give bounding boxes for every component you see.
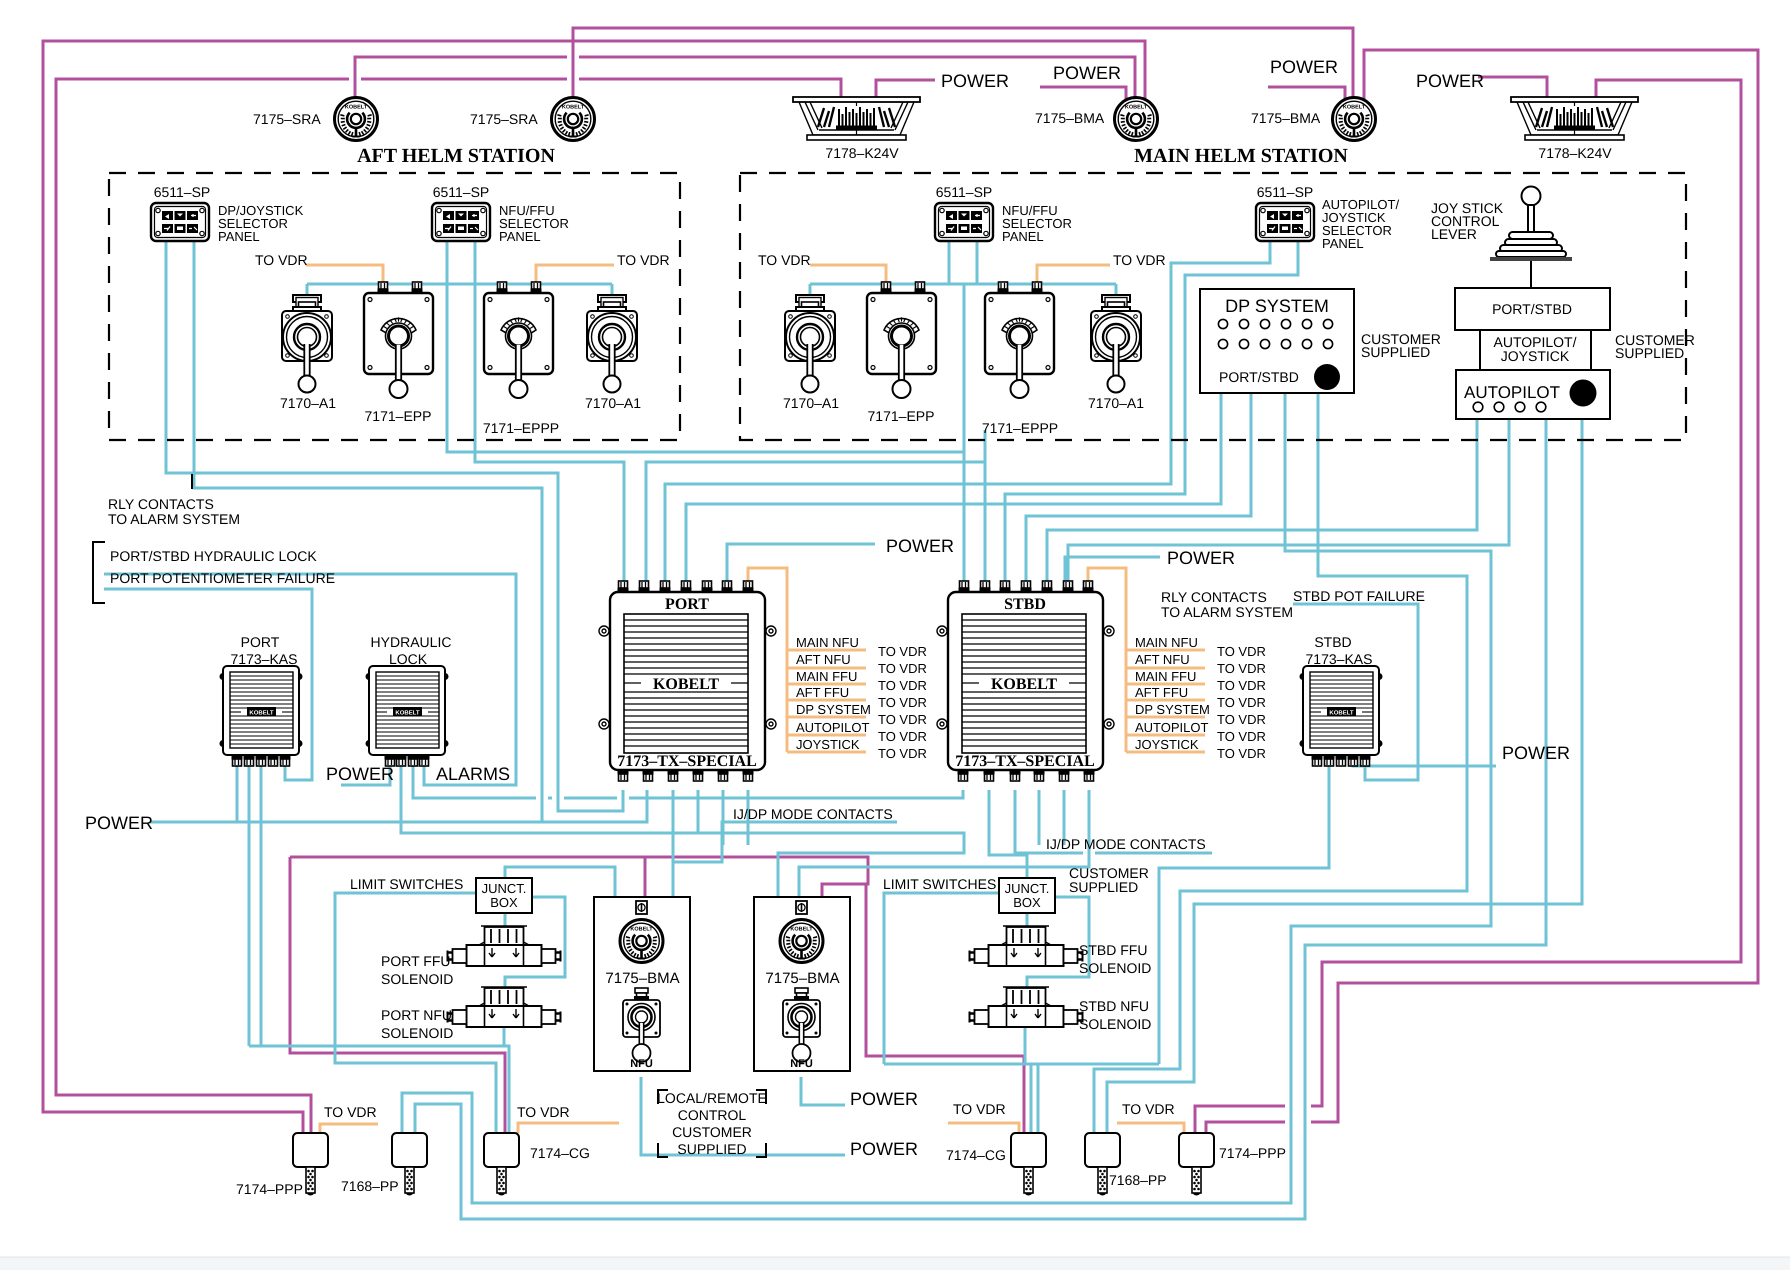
AUTOPILOT panel	[1456, 370, 1610, 419]
svg-text:PORT FFU: PORT FFU	[381, 953, 451, 969]
svg-text:TO VDR: TO VDR	[255, 252, 308, 268]
svg-text:DP SYSTEM: DP SYSTEM	[1225, 296, 1329, 316]
svg-text:TO VDR: TO VDR	[1217, 644, 1266, 659]
svg-text:MAIN NFU: MAIN NFU	[1135, 635, 1198, 650]
svg-text:RLY CONTACTS: RLY CONTACTS	[1161, 589, 1267, 605]
svg-text:7174–PPP: 7174–PPP	[1219, 1145, 1286, 1161]
svg-text:7175–SRA: 7175–SRA	[470, 111, 538, 127]
wire: cyan KAS2 s4 POWER	[1353, 763, 1496, 766]
svg-text:MAIN FFU: MAIN FFU	[796, 669, 857, 684]
svg-text:7168–PP: 7168–PP	[1109, 1172, 1167, 1188]
wire: cyan junct2 to STBD FFU/NFU sol	[1027, 897, 1089, 987]
svg-text:7173–KAS: 7173–KAS	[231, 651, 298, 667]
svg-text:PANEL: PANEL	[1322, 236, 1364, 251]
svg-text:JOYSTICK: JOYSTICK	[1501, 348, 1570, 364]
svg-text:SUPPLIED: SUPPLIED	[1069, 879, 1138, 895]
wire: cyan aft NFU selector region bus riser	[984, 430, 987, 462]
svg-text:TO VDR: TO VDR	[517, 1104, 570, 1120]
svg-text:JUNCT.: JUNCT.	[482, 881, 527, 896]
svg-text:RLY CONTACTS: RLY CONTACTS	[108, 496, 214, 512]
wire: cyan PORT stud3b to BMA#3 top	[672, 790, 675, 897]
svg-text:BOX: BOX	[490, 895, 518, 910]
svg-text:6511–SP: 6511–SP	[154, 184, 211, 200]
wire: cyan HYD s1 POWER	[341, 762, 390, 785]
bracket + hydraulic lock / pot failure labels	[93, 542, 105, 603]
selector panel 6511-SP #1 (DP/JOYSTICK)	[151, 184, 304, 244]
svg-text:CONTROL: CONTROL	[678, 1107, 747, 1123]
wire: cyan PORT/STBD hydraulic lock line to HYD LOCK stud4	[104, 574, 516, 785]
node: RLY contacts tick	[191, 474, 193, 489]
junction box 2	[999, 878, 1055, 913]
svg-text:SOLENOID: SOLENOID	[1079, 960, 1151, 976]
connector 7174-PPP left	[236, 1133, 328, 1197]
PORT amplifier 7173-TX-SPECIAL	[599, 581, 776, 781]
svg-text:7168–PP: 7168–PP	[341, 1178, 399, 1194]
svg-text:SOLENOID: SOLENOID	[381, 971, 453, 987]
svg-text:POWER: POWER	[85, 813, 153, 833]
solenoid valve PORT NFU	[448, 987, 561, 1027]
alarm panel 7178-K24V #1	[793, 97, 920, 161]
svg-text:MAIN HELM STATION: MAIN HELM STATION	[1134, 145, 1348, 167]
svg-text:SUPPLIED: SUPPLIED	[1615, 345, 1684, 361]
svg-text:POWER: POWER	[850, 1139, 918, 1159]
jog lever 7170-A1 #4	[1088, 295, 1144, 411]
svg-text:LIMIT SWITCHES: LIMIT SWITCHES	[350, 876, 463, 892]
wire: cyan STBD amp POWER stud6	[1065, 557, 1160, 588]
svg-text:TO VDR: TO VDR	[1217, 661, 1266, 676]
svg-text:SUPPLIED: SUPPLIED	[1361, 344, 1430, 360]
KAS box STBD with studs	[1300, 666, 1383, 766]
svg-text:LIMIT SWITCHES: LIMIT SWITCHES	[883, 876, 996, 892]
connector 7174-PPP right	[1179, 1133, 1286, 1196]
wire: cyan BMA#4 NFU to POWER	[801, 1077, 845, 1105]
panel 7175-BMA #3	[594, 897, 690, 1071]
selector panel 6511-SP #3 (NFU/FFU main)	[935, 184, 1072, 244]
svg-text:7175–SRA: 7175–SRA	[253, 111, 321, 127]
svg-text:TO VDR: TO VDR	[878, 644, 927, 659]
svg-text:POWER: POWER	[326, 764, 394, 784]
svg-text:PANEL: PANEL	[1002, 229, 1044, 244]
wire: cyan BMA#3 NFU to POWER	[641, 1077, 845, 1155]
wire: orange TO VDR 7174-CG right	[948, 1123, 1019, 1133]
svg-text:AFT NFU: AFT NFU	[1135, 652, 1190, 667]
dial 7175-SRA #1	[253, 98, 378, 141]
DP SYSTEM panel	[1200, 289, 1354, 393]
svg-text:PORT: PORT	[665, 596, 709, 613]
wire: orange AFT TO VDR 1	[306, 265, 383, 289]
wire: orange STBD VDR ladder	[1088, 568, 1205, 752]
wire: orange TO VDR 7174-PPP left	[320, 1124, 378, 1133]
wire hop gaps	[349, 50, 1311, 1128]
svg-text:7171–EPP: 7171–EPP	[868, 408, 935, 424]
connector 7168-PP left	[341, 1133, 427, 1196]
svg-text:AUTOPILOT: AUTOPILOT	[1464, 383, 1560, 402]
bottom gray bar	[0, 1257, 1790, 1270]
svg-text:POWER: POWER	[1053, 63, 1121, 83]
wire: cyan junct box1 to BMA#3 left	[505, 867, 615, 897]
wire: cyan AFT DP selector w2 to y822 bus	[194, 240, 542, 822]
wire: cyan MAIN station bus	[810, 284, 1116, 297]
svg-text:MAIN FFU: MAIN FFU	[1135, 669, 1196, 684]
svg-text:TO VDR: TO VDR	[1217, 695, 1266, 710]
svg-text:POWER: POWER	[850, 1089, 918, 1109]
svg-text:LOCK: LOCK	[389, 651, 428, 667]
solenoid valve STBD NFU	[970, 987, 1083, 1027]
hydraulic lock box with studs	[366, 666, 449, 766]
wire: cyan AUTOPILOT w4 chain to 7168-PP right s2	[1107, 419, 1582, 1133]
svg-text:TO VDR: TO VDR	[1217, 678, 1266, 693]
svg-text:7170–A1: 7170–A1	[585, 395, 641, 411]
svg-text:TO VDR: TO VDR	[878, 678, 927, 693]
svg-text:JOYSTICK: JOYSTICK	[796, 737, 860, 752]
svg-text:7178–K24V: 7178–K24V	[1538, 145, 1612, 161]
PORT VDR signal list	[796, 635, 927, 761]
svg-text:PORT POTENTIOMETER FAILURE: PORT POTENTIOMETER FAILURE	[110, 570, 335, 586]
svg-text:JOYSTICK: JOYSTICK	[1135, 737, 1199, 752]
MAIN station dashed box	[740, 173, 1686, 440]
svg-text:STBD NFU: STBD NFU	[1079, 998, 1149, 1014]
svg-text:7173–TX–SPECIAL: 7173–TX–SPECIAL	[955, 753, 1095, 770]
svg-text:BOX: BOX	[1013, 895, 1041, 910]
svg-text:STBD POT FAILURE: STBD POT FAILURE	[1293, 588, 1425, 604]
svg-text:6511–SP: 6511–SP	[433, 184, 490, 200]
jog lever 7170-A1 #3	[783, 295, 839, 411]
wire: magenta POWER to BMA#1 dial	[1040, 87, 1126, 99]
svg-text:CUSTOMER: CUSTOMER	[672, 1124, 752, 1140]
svg-text:TO VDR: TO VDR	[878, 695, 927, 710]
svg-text:SOLENOID: SOLENOID	[1079, 1016, 1151, 1032]
wire: cyan HYD s2 y833 chain to BMA#4 left	[401, 762, 964, 897]
wire: cyan limit switches 2	[884, 893, 999, 1064]
svg-text:TO VDR: TO VDR	[953, 1101, 1006, 1117]
STBD VDR signal list	[1135, 635, 1266, 761]
svg-text:KOBELT: KOBELT	[991, 676, 1057, 693]
svg-text:POWER: POWER	[886, 536, 954, 556]
wire: orange MAIN TO VDR 1	[810, 265, 886, 289]
svg-text:DP SYSTEM: DP SYSTEM	[796, 702, 871, 717]
svg-text:POWER: POWER	[1167, 548, 1235, 568]
wire: cyan STBD s2b to junct#2	[989, 790, 1027, 878]
label LOCAL/REMOTE CONTROL CUSTOMER SUPPLIED with brackets	[657, 1090, 767, 1157]
wire: cyan PORT potentiometer failure to KAS s5	[104, 589, 312, 780]
wire: cyan AFT NFU sel s1 to STBD stud1	[447, 242, 964, 588]
FFU lever 7171-EPPP #2	[982, 282, 1058, 436]
wire: magenta POWER to K24V#1	[876, 80, 935, 97]
svg-text:POWER: POWER	[1502, 743, 1570, 763]
svg-text:7178–K24V: 7178–K24V	[825, 145, 899, 161]
svg-text:IJ/DP MODE CONTACTS: IJ/DP MODE CONTACTS	[733, 806, 893, 822]
wire: magenta bottom BMA#3/#4 loop	[290, 857, 1024, 1133]
svg-text:POWER: POWER	[941, 71, 1009, 91]
wire: cyan KAS2 s2 chain y868 to CG right	[884, 763, 1329, 1133]
svg-text:7170–A1: 7170–A1	[280, 395, 336, 411]
svg-text:TO VDR: TO VDR	[878, 746, 927, 761]
svg-text:TO VDR: TO VDR	[1217, 712, 1266, 727]
svg-text:7171–EPPP: 7171–EPPP	[982, 420, 1058, 436]
svg-text:TO VDR: TO VDR	[1122, 1101, 1175, 1117]
svg-text:7174–CG: 7174–CG	[946, 1147, 1006, 1163]
wire: magenta top bus y=28 (SRA#2 to BMA#2 dial)	[573, 28, 1353, 99]
svg-text:PORT: PORT	[241, 634, 280, 650]
svg-text:7171–EPPP: 7171–EPPP	[483, 420, 559, 436]
svg-text:7171–EPP: 7171–EPP	[365, 408, 432, 424]
wire: cyan DP box w4 long chain to 7168-PP right s1	[1094, 393, 1467, 1133]
alarm panel 7178-K24V #2	[1511, 97, 1638, 161]
svg-text:SUPPLIED: SUPPLIED	[677, 1141, 746, 1157]
svg-text:PORT/STBD: PORT/STBD	[1492, 301, 1572, 317]
svg-text:STBD: STBD	[1004, 596, 1046, 613]
svg-text:7174–PPP: 7174–PPP	[236, 1181, 303, 1197]
connector 7174-CG left	[484, 1133, 590, 1196]
solenoid valve STBD FFU	[970, 926, 1083, 966]
wire: black joystick stem to PORT/STBD box	[1530, 260, 1532, 288]
wire: cyan AUTOPILOT w3 chain to 7168-PP left s2	[415, 419, 1546, 1219]
dial 7175-BMA #1	[1035, 98, 1158, 141]
svg-text:DP SYSTEM: DP SYSTEM	[1135, 702, 1210, 717]
wire: orange AFT TO VDR 2	[536, 265, 614, 289]
wire: cyan AUTOPILOT w1 to STBD stud5	[1047, 419, 1477, 588]
svg-text:TO VDR: TO VDR	[1217, 746, 1266, 761]
svg-text:TO VDR: TO VDR	[758, 252, 811, 268]
wire: cyan sel#4 w2 to STBD stud3	[1005, 242, 1298, 588]
wire: cyan STBD s6b to BMA#4 mid	[799, 790, 1089, 897]
svg-text:LEVER: LEVER	[1431, 226, 1477, 242]
svg-text:TO VDR: TO VDR	[878, 661, 927, 676]
wire: magenta inner left border y=79 to 7174-PPP	[56, 79, 841, 1133]
wire: cyan DP box w3 long chain to 7168-PP left s1	[402, 393, 1491, 1203]
svg-text:SOLENOID: SOLENOID	[381, 1025, 453, 1041]
wire: magenta POWER to BMA#2 dial	[1268, 87, 1345, 100]
wire: cyan DP box w2 to STBD stud4	[1026, 393, 1251, 588]
wire: cyan KAS s2/s3 to 7174-CG left	[249, 763, 509, 1133]
AFT station dashed box	[109, 173, 680, 440]
dial 7175-BMA #2	[1251, 98, 1376, 141]
wire: cyan POWER to KAS s1 via y822 bus to PORT stud2b	[150, 763, 647, 822]
wire: magenta y=57 bus SRA#1/BMA#1	[355, 57, 1135, 99]
wire: cyan sel#4 w1 to PORT stud3	[665, 242, 1270, 588]
junction box 1	[476, 878, 532, 913]
wire: magenta right loop M2 BMA#2 / 7174-PPP right	[1206, 50, 1758, 1133]
svg-text:POWER: POWER	[1416, 71, 1484, 91]
jog lever 7170-A1 #2	[585, 295, 641, 411]
selector panel 6511-SP #4 (AUTOPILOT/JOYSTICK)	[1256, 184, 1399, 251]
svg-text:7170–A1: 7170–A1	[783, 395, 839, 411]
selector panel 6511-SP #2 (NFU/FFU aft)	[432, 184, 569, 244]
svg-text:TO VDR: TO VDR	[1217, 729, 1266, 744]
KAS box PORT with studs	[220, 666, 303, 766]
wire: orange TO VDR 7174-CG left	[518, 1123, 619, 1133]
wire: cyan IJ/DP 1 underline and link	[674, 822, 897, 862]
svg-text:TO VDR: TO VDR	[878, 712, 927, 727]
svg-text:AFT HELM STATION: AFT HELM STATION	[357, 145, 555, 167]
svg-text:7173–TX–SPECIAL: 7173–TX–SPECIAL	[617, 753, 757, 770]
wire: cyan STBD s3b to IJ/DP 2 underline	[1015, 790, 1212, 853]
AUTOPILOT/JOYSTICK box	[1480, 330, 1591, 370]
svg-text:PORT/STBD HYDRAULIC LOCK: PORT/STBD HYDRAULIC LOCK	[110, 548, 317, 564]
svg-text:PORT/STBD: PORT/STBD	[1219, 369, 1299, 385]
svg-text:PORT NFU: PORT NFU	[381, 1007, 452, 1023]
svg-text:7170–A1: 7170–A1	[1088, 395, 1144, 411]
svg-text:MAIN NFU: MAIN NFU	[796, 635, 859, 650]
FFU lever 7171-EPPP #1	[483, 282, 559, 436]
wire: magenta left border from y=41 to 7174-PPP left	[43, 41, 1145, 1133]
svg-text:6511–SP: 6511–SP	[1257, 184, 1314, 200]
wire: cyan AFT NFU sel s2 to PORT stud1	[475, 242, 624, 588]
svg-text:PANEL: PANEL	[218, 229, 260, 244]
dial 7175-SRA #2	[470, 98, 595, 141]
wire: cyan AUTOPILOT w2 to STBD stud6	[1068, 419, 1509, 588]
wire: cyan PORT amp POWER stud6	[727, 544, 875, 588]
PORT/STBD box	[1455, 288, 1610, 330]
svg-text:AUTOPILOT: AUTOPILOT	[1135, 720, 1209, 735]
FFU lever 7171-EPP #1	[364, 282, 433, 424]
svg-text:7173–KAS: 7173–KAS	[1306, 651, 1373, 667]
svg-text:POWER: POWER	[1270, 57, 1338, 77]
svg-text:IJ/DP MODE CONTACTS: IJ/DP MODE CONTACTS	[1046, 836, 1206, 852]
svg-text:TO VDR: TO VDR	[1113, 252, 1166, 268]
svg-text:7174–CG: 7174–CG	[530, 1145, 590, 1161]
wire: cyan AFT DP selector w1 to PORT amp bottom stud1	[166, 240, 623, 811]
FFU lever 7171-EPP #2	[867, 282, 936, 424]
svg-text:AUTOPILOT: AUTOPILOT	[796, 720, 870, 735]
jog lever 7170-A1 #1	[280, 295, 336, 411]
STBD amplifier 7173-TX-SPECIAL	[937, 581, 1114, 781]
svg-text:KOBELT: KOBELT	[653, 676, 719, 693]
solenoid valve PORT FFU	[448, 926, 561, 966]
wire: cyan AFT station bus	[307, 284, 612, 297]
svg-text:TO VDR: TO VDR	[324, 1104, 377, 1120]
svg-text:AFT NFU: AFT NFU	[796, 652, 851, 667]
svg-text:6511–SP: 6511–SP	[936, 184, 993, 200]
svg-text:TO ALARM SYSTEM: TO ALARM SYSTEM	[1161, 604, 1293, 620]
svg-text:7175–BMA: 7175–BMA	[1035, 110, 1105, 126]
wire: magenta POWER to K24V#2 left	[1478, 77, 1547, 97]
connector 7174-CG right	[946, 1133, 1046, 1196]
svg-text:STBD FFU: STBD FFU	[1079, 942, 1147, 958]
wire: orange PORT VDR ladder	[748, 568, 866, 752]
svg-text:HYDRAULIC: HYDRAULIC	[371, 634, 452, 650]
svg-text:7175–BMA: 7175–BMA	[1251, 110, 1321, 126]
svg-text:JUNCT.: JUNCT.	[1005, 881, 1050, 896]
wire: cyan short stubs amp bottom	[723, 790, 1064, 845]
svg-text:STBD: STBD	[1314, 634, 1351, 650]
wire: cyan PORT stud2 to STBD stud2	[646, 462, 985, 588]
connector 7168-PP right	[1085, 1133, 1167, 1196]
wire: cyan main NFU selector studs to bus	[949, 242, 977, 284]
joystick lever	[1490, 187, 1572, 262]
svg-text:TO VDR: TO VDR	[878, 729, 927, 744]
panel 7175-BMA #4	[754, 897, 850, 1071]
svg-text:AFT FFU: AFT FFU	[1135, 685, 1188, 700]
svg-text:LOCAL/REMOTE: LOCAL/REMOTE	[657, 1090, 767, 1106]
svg-text:ALARMS: ALARMS	[436, 764, 510, 784]
wire: cyan limit switches 1 to 7174-CG left	[335, 893, 496, 1133]
wire: orange MAIN TO VDR 2	[1037, 265, 1110, 289]
wire: cyan junct1 to FFU sol and NFU sol loop	[505, 897, 565, 987]
wire: cyan DP box w1 to PORT stud4	[686, 393, 1221, 588]
svg-text:TO ALARM SYSTEM: TO ALARM SYSTEM	[108, 511, 240, 527]
svg-text:TO VDR: TO VDR	[617, 252, 670, 268]
svg-text:AFT FFU: AFT FFU	[796, 685, 849, 700]
wire: cyan y798 bus HYD s3 to STBD stud1b	[413, 762, 963, 798]
wire: cyan STBD pot failure to KAS2 s5	[1293, 604, 1418, 780]
svg-text:PANEL: PANEL	[499, 229, 541, 244]
wire: magenta right loop M1 K24V#2 right / 7174-PPP right	[1195, 80, 1741, 1133]
wire: orange TO VDR 7174-PPP right	[1117, 1123, 1184, 1133]
